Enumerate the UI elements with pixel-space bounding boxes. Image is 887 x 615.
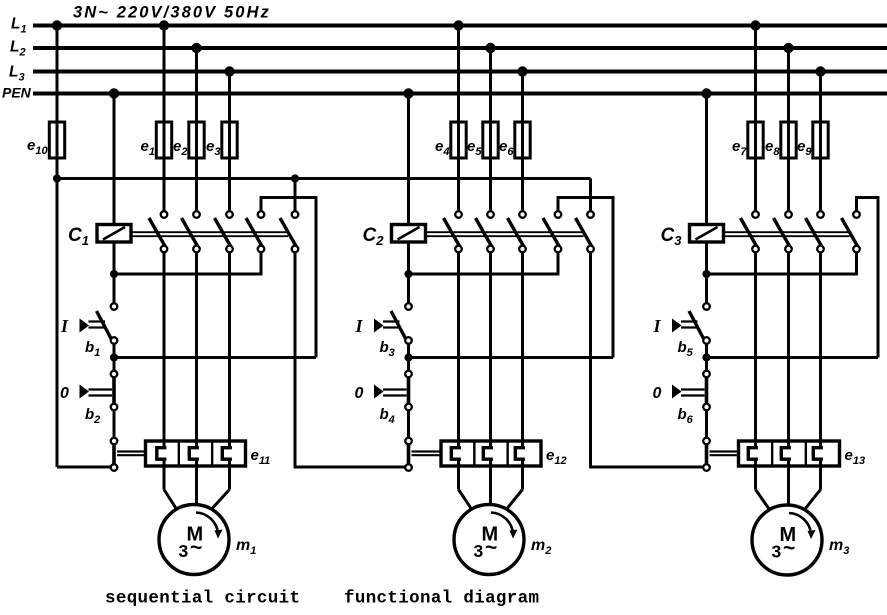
wire overload to motor m1 phase 2 [195,466,198,505]
start pushbutton b3 (I) [405,303,412,310]
contactor C3 contact 4 [842,218,859,247]
svg-text:sequential circuit: sequential circuit [105,589,300,609]
mechanical link to overload block e11 [117,450,146,452]
fuse e7 [754,122,757,158]
wire b6 to overload contact [705,410,708,437]
wire feed to circuit 2 chain [294,466,406,469]
fuse e2 [195,122,198,158]
contactor C3 contact 2 [774,218,791,247]
wire C2 aux5 bottom feed down [589,252,592,467]
overload NC contact e11 [111,438,118,445]
rotation arrow motor m3 [789,513,811,534]
wire overload to motor m3 phase 2 [787,466,790,505]
contactor C1 contact 4 [246,218,263,247]
wire L1 to fuse e1 [163,26,166,123]
svg-text:3: 3 [772,542,782,562]
node rail to C1 aux5 top [291,174,299,182]
svg-text:e12: e12 [546,447,567,467]
node latch junction circuit 2 [404,353,412,361]
svg-text:L3: L3 [9,64,25,84]
contactor C3 contact 1 [741,218,758,247]
heater element at x=229.5 [228,441,231,449]
wire L1 to fuse e10 [56,26,59,123]
wire L3 to fuse e6 [521,72,524,123]
wire rail down to C1 aux5 top [294,179,297,212]
wire aux contact bottom to coil node [557,252,560,274]
rotation arrow motor m1 [196,513,218,534]
wire latch vertical x=878 [877,198,880,358]
rotation arrow motor m2 [491,513,513,534]
overload NC contact e12 [405,438,412,445]
mechanical linkage C1 [131,231,288,233]
mechanical linkage C2 [426,231,584,233]
thermal overload relay e12 [441,441,541,466]
svg-text:I: I [355,316,364,336]
svg-text:I: I [653,316,662,336]
svg-text:e2: e2 [173,138,187,158]
contactor C1 contact 5 [280,218,297,247]
node PEN tap circuit 1 [109,88,119,98]
svg-text:b2: b2 [85,406,100,426]
node L1 tap for fuse e10 [52,20,62,30]
wire latch vertical x=613 [612,198,615,358]
svg-text:C1: C1 [68,225,89,248]
wire latch junction to start button b3 [409,356,614,359]
svg-text:m2: m2 [531,537,551,557]
heater element at x=458.5 [457,441,460,449]
svg-text:~: ~ [190,537,202,560]
wire latch vertical x=316 [315,198,318,358]
svg-text:0: 0 [60,385,69,402]
bus line L2 [33,46,887,50]
fuse e9 [819,122,822,158]
node latch junction circuit 1 [110,353,118,361]
fuse e6 [521,122,524,158]
wire L2 to fuse e5 [489,48,492,122]
node L1 tap at x=458.5 [453,20,463,30]
mechanical link to overload block e12 [412,450,442,452]
heater element at x=820.5 [819,441,822,449]
contactor C1 contact 2 [182,218,199,247]
node control rail start [53,174,61,182]
start pushbutton b5 (I) [703,303,710,310]
wire L2 to fuse e2 [195,48,198,122]
heater element at x=164 [163,441,166,449]
svg-text:e9: e9 [797,138,812,158]
wire C1 contact 3 to overload e11 [228,252,231,441]
svg-text:e8: e8 [765,138,780,158]
wire C2 contact 2 to overload e12 [489,252,492,441]
bus line L1 [33,24,887,28]
wire fuse e2 to contactor C1 contact 2 [195,158,198,211]
wire fuse e7 to contactor C3 contact 1 [754,158,757,211]
wire aux contact bottom to coil node [855,252,858,274]
svg-text:b6: b6 [678,406,694,426]
svg-text:e3: e3 [206,138,220,158]
node PEN tap circuit 3 [701,88,711,98]
wire fuse e10 down to control feed corner [56,158,59,467]
wire overload to motor m2 phase 2 [489,466,492,505]
fuse e1 [163,122,166,158]
wire latch top C2 aux contact [557,198,560,212]
svg-text:PEN: PEN [2,85,32,101]
svg-text:functional diagram: functional diagram [344,589,539,609]
start pushbutton b1 (I) [111,303,118,310]
contactor C2 contact 1 [444,218,461,247]
node L2 tap at x=788.5 [783,43,793,53]
svg-text:e11: e11 [251,447,271,467]
wire PEN to coil C2 [407,94,410,225]
bus line PEN [33,92,887,96]
node L3 tap at x=229.5 [224,66,234,76]
svg-text:b3: b3 [380,339,395,359]
overload NC contact e13 [703,438,710,445]
fuse e8 [787,122,790,158]
wire latch junction to start button b5 [707,356,879,359]
wire L1 to fuse e4 [457,26,460,123]
svg-text:C2: C2 [363,225,385,248]
wire C1 aux5 bottom feed down [294,252,297,467]
wire overload to motor m3 phase 3 [819,466,822,490]
fuse e3 [228,122,231,158]
wire PEN to coil C3 [705,94,708,225]
wire fuse e1 to contactor C1 contact 1 [163,158,166,211]
fuse e5 [489,122,492,158]
wire fuse e6 to contactor C2 contact 3 [521,158,524,211]
wire coil C2 bottom to start button [407,242,410,303]
wire fuse e4 to contactor C2 contact 1 [457,158,460,211]
contactor coil C1 [97,225,131,243]
svg-text:m1: m1 [236,537,256,557]
svg-text:0: 0 [653,385,662,402]
wire b2 to overload contact [113,410,116,437]
wire L2 to fuse e8 [787,48,790,122]
contactor C2 contact 4 [543,218,560,247]
wire C3 contact 1 to overload e13 [754,252,757,441]
heater element at x=522.5 [521,441,524,449]
svg-text:e10: e10 [27,137,48,157]
contactor C3 contact 3 [806,218,823,247]
svg-text:~: ~ [783,537,795,560]
node L2 tap at x=490.5 [485,43,495,53]
wire L3 to fuse e3 [228,72,231,123]
wire overload to motor m2 phase 3 [521,466,524,490]
mechanical linkage C3 [724,231,850,233]
thermal overload relay e13 [739,441,840,466]
wire b3 to junction [407,344,410,371]
node coil bottom junction C1 [110,270,118,278]
wire latch top C1 aux contact [260,198,263,212]
thermal overload relay e11 [146,441,246,466]
wire control rail circuit2 [295,177,591,180]
heater element at x=196.5 [195,441,198,449]
contactor C2 contact 2 [476,218,493,247]
svg-text:3: 3 [474,541,484,561]
wire C3 contact 2 to overload e13 [787,252,790,441]
wire latch top C3 aux contact [855,198,858,212]
svg-text:b4: b4 [380,406,395,426]
wire C2 contact 1 to overload e12 [457,252,460,441]
contactor C1 contact 3 [215,218,232,247]
svg-text:0: 0 [355,385,364,402]
node L2 tap at x=196.5 [191,43,201,53]
node latch junction circuit 3 [702,353,710,361]
svg-text:C3: C3 [661,225,683,248]
contactor coil C2 [392,225,426,243]
stop pushbutton b2 (0) [111,371,118,378]
wire rail down to C2 aux5 top [589,179,592,212]
wire b5 to junction [705,344,708,371]
node L1 tap at x=755.5 [750,20,760,30]
svg-text:L2: L2 [10,39,26,59]
stop pushbutton b4 (0) [405,371,412,378]
stop pushbutton b6 (0) [703,371,710,378]
node L3 tap at x=522.5 [517,66,527,76]
wire PEN to coil C1 [113,94,116,225]
heater element at x=490.5 [489,441,492,449]
wire coil C1 bottom to start button [113,242,116,303]
wire C2 contact 3 to overload e12 [521,252,524,441]
svg-text:e6: e6 [499,138,514,158]
wire L1 to fuse e7 [754,26,757,123]
wire aux contact bottom to coil node [260,252,263,274]
motor m3 [752,505,822,575]
contactor C2 contact 3 [508,218,525,247]
fuse e10 [56,122,59,158]
wire feed to circuit 3 chain [589,466,703,469]
contactor C2 contact 5 [576,218,593,247]
wire bottom feed to control chain m1 [57,466,111,469]
contactor coil C3 [690,225,724,243]
node L1 tap at x=164 [159,20,169,30]
svg-text:e4: e4 [435,138,449,158]
svg-text:3: 3 [179,541,189,561]
wire overload to motor m2 phase 1 [457,466,460,490]
wire C3 contact 3 to overload e13 [819,252,822,441]
svg-text:I: I [60,316,69,336]
contactor C1 contact 1 [149,218,166,247]
mechanical link to overload block e13 [710,450,739,452]
bus line L3 [33,70,887,74]
node PEN tap circuit 2 [403,88,413,98]
svg-text:m3: m3 [829,537,849,557]
wire overload to motor m1 phase 1 [163,466,166,490]
wire b4 to overload contact [407,410,410,437]
wire control rail circuit1 [57,177,295,180]
svg-text:e13: e13 [845,447,866,467]
wire C1 contact 2 to overload e11 [195,252,198,441]
svg-text:e7: e7 [732,138,747,158]
svg-text:L1: L1 [11,16,27,36]
wire b1 to junction [113,344,116,371]
svg-text:b5: b5 [678,339,694,359]
svg-text:3N~ 220V/380V 50Hz: 3N~ 220V/380V 50Hz [73,4,271,22]
wire L3 to fuse e9 [819,72,822,123]
node coil bottom junction C2 [404,270,412,278]
node coil bottom junction C3 [702,270,710,278]
svg-text:e1: e1 [141,138,155,158]
svg-text:e5: e5 [467,138,482,158]
heater element at x=788.5 [787,441,790,449]
motor m1 [159,505,229,575]
wire fuse e9 to contactor C3 contact 3 [819,158,822,211]
svg-text:b1: b1 [85,339,100,359]
wire overload to motor m3 phase 1 [754,466,757,490]
motor m2 [454,505,524,575]
wire overload to motor m1 phase 3 [228,466,231,490]
wire fuse e8 to contactor C3 contact 2 [787,158,790,211]
wire C1 contact 1 to overload e11 [163,252,166,441]
wire fuse e3 to contactor C1 contact 3 [228,158,231,211]
wire coil C3 bottom to start button [705,242,708,303]
node L3 tap at x=820.5 [815,66,825,76]
wire fuse e5 to contactor C2 contact 2 [489,158,492,211]
heater element at x=755.5 [754,441,757,449]
svg-text:~: ~ [485,537,497,560]
fuse e4 [457,122,460,158]
wire latch junction to start button b1 [114,356,316,359]
